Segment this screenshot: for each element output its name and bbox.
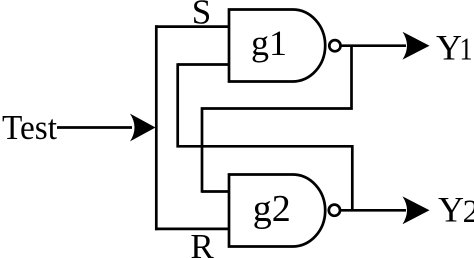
wire: feedback Y1 to g2 pin 1 [202, 46, 352, 193]
nand gate g1 inversion bubble [329, 40, 340, 51]
wire: R net horizontal to g2 pin 2 [155, 228, 230, 231]
svg-text:Test: Test [2, 108, 57, 147]
svg-text:Y1: Y1 [436, 28, 473, 68]
wire: S net horizontal to g1 pin 1 [155, 25, 230, 28]
wire: input bus vertical (S-R tie) [155, 25, 158, 230]
svg-text:S: S [192, 0, 211, 32]
wire: g1 pin 2 stub [178, 63, 230, 66]
svg-text:g2: g2 [253, 188, 291, 230]
svg-text:Y2: Y2 [438, 190, 474, 231]
svg-text:g1: g1 [251, 23, 287, 63]
nand gate g2 inversion bubble [329, 205, 340, 216]
wire: Y2 output [340, 209, 406, 212]
arrowhead: Y2 output [403, 196, 430, 224]
wire: Test input horizontal [57, 126, 132, 129]
nand gate g2 body [229, 175, 325, 247]
nand gate g1 body [229, 10, 325, 82]
wire: Y1 output [341, 44, 407, 47]
wire: g2 pin 1 stub [202, 190, 230, 193]
arrowhead: Test input [130, 114, 156, 142]
svg-text:R: R [190, 227, 214, 258]
wire: feedback Y2 to g1 pin 2 [178, 63, 353, 210]
arrowhead: Y1 output [403, 32, 430, 60]
